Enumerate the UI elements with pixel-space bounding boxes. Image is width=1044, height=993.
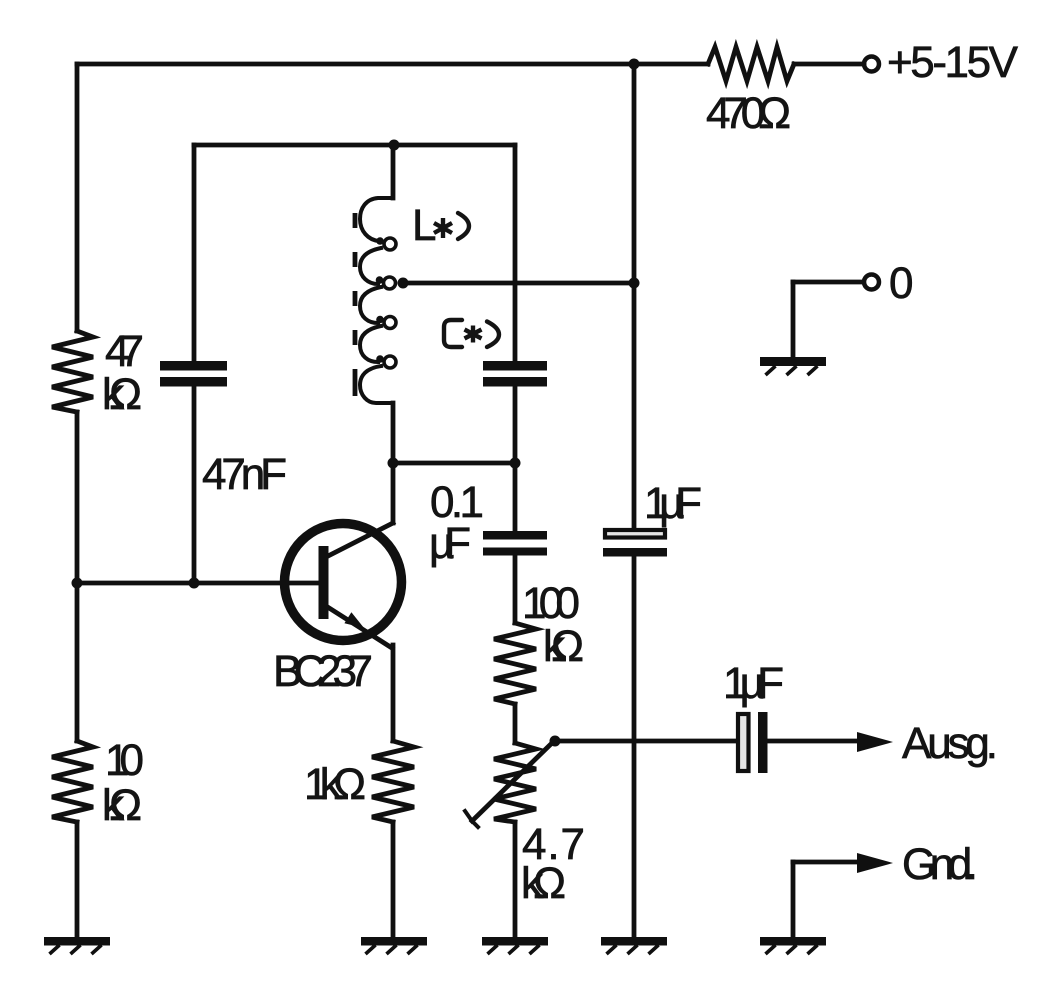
svg-text:kΩ: kΩ	[543, 622, 584, 671]
svg-text:1kΩ: 1kΩ	[304, 760, 366, 809]
svg-text:kΩ: kΩ	[102, 781, 142, 830]
svg-text:1µF: 1µF	[644, 479, 702, 528]
svg-text:kΩ: kΩ	[521, 859, 566, 908]
svg-text:100: 100	[522, 579, 580, 628]
svg-text:Ausg.: Ausg.	[902, 719, 998, 768]
svg-text:470Ω: 470Ω	[706, 89, 791, 138]
svg-text:47nF: 47nF	[202, 450, 287, 499]
svg-text:+5-15V: +5-15V	[887, 38, 1019, 87]
svg-text:kΩ: kΩ	[102, 370, 142, 419]
svg-text:Gnd.: Gnd.	[902, 840, 978, 889]
svg-text:0: 0	[889, 259, 913, 308]
svg-text:BC237: BC237	[273, 647, 373, 696]
svg-text:L: L	[412, 201, 436, 250]
svg-text:47: 47	[105, 327, 144, 376]
svg-text:10: 10	[105, 736, 144, 785]
svg-text:µF: µF	[429, 519, 471, 568]
svg-text:1µF: 1µF	[723, 659, 784, 708]
